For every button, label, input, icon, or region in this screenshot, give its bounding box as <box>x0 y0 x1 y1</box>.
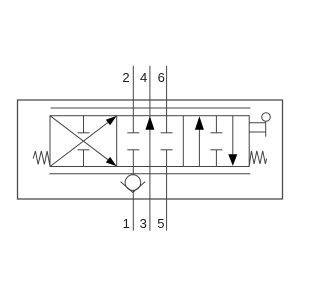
blocked port T box 2 port 2 top <box>127 132 139 134</box>
blocked port T box 2 port 6 top <box>161 132 173 134</box>
blocked port T box 3 bottom <box>210 150 222 167</box>
check valve CV1 seat <box>121 182 146 193</box>
pilot actuator roller <box>262 113 271 122</box>
flow arrow up (box 2, port 3 to 4) <box>145 116 154 130</box>
valve body V1 <box>50 116 249 167</box>
check valve CV1 ball <box>125 175 141 191</box>
flow arrow down (box 3 right) <box>228 116 237 166</box>
pilot actuator link upper <box>249 122 266 124</box>
pilot actuator stem <box>265 121 267 136</box>
blocked port T box 3 top <box>210 116 222 133</box>
position divider 2 <box>182 116 184 167</box>
blocked port T box 1 bottom <box>78 150 90 167</box>
blocked port T box 1 top <box>78 116 90 133</box>
svg-text:6: 6 <box>158 70 165 85</box>
blocked port T box 2 port 1 bottom <box>127 149 139 151</box>
flow arrow up (box 3 left) <box>195 116 204 166</box>
spring right <box>249 151 266 166</box>
port 1 wire bottom <box>132 150 134 231</box>
port 2 wire top <box>132 66 134 133</box>
svg-text:1: 1 <box>123 216 130 231</box>
pilot actuator link lower <box>249 131 266 133</box>
port 5 wire bottom <box>166 150 168 231</box>
enclosure <box>18 100 283 199</box>
crossed flow arrow down-right (box 1) <box>50 116 117 167</box>
crossed flow arrow up-right (box 1) <box>50 116 117 167</box>
port 4 / port 3 wire <box>149 66 151 231</box>
svg-text:5: 5 <box>157 216 164 231</box>
svg-text:4: 4 <box>140 70 147 85</box>
port 6 wire top <box>166 66 168 133</box>
spring left <box>33 151 50 166</box>
bottom rail wire <box>49 173 250 175</box>
blocked port T box 2 port 5 bottom <box>161 149 173 151</box>
svg-text:2: 2 <box>122 70 129 85</box>
position divider 1 <box>116 116 118 167</box>
svg-text:3: 3 <box>140 216 147 231</box>
top rail wire <box>51 107 251 109</box>
